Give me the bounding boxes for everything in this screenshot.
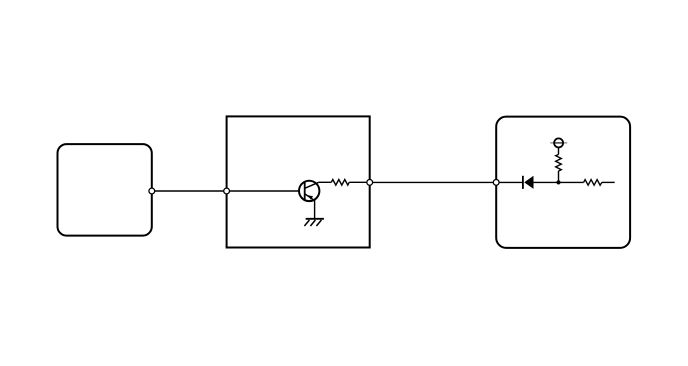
wire (collector to resistor R1): [319, 181, 332, 183]
transistor Q1 (PNP): [299, 181, 319, 201]
wire (middle box to right box): [370, 181, 497, 183]
wire (diode to junction to resistor R3): [534, 181, 584, 183]
wire (junction up to resistor R2): [558, 171, 560, 182]
wire (base lead inside middle box): [227, 190, 305, 192]
resistor R1: [331, 180, 349, 186]
diode D1: [523, 176, 534, 189]
wire (left box to middle box): [152, 190, 227, 192]
block box B2 (middle square): [227, 116, 370, 247]
ground: [304, 219, 324, 226]
node (terminal) at middle box right edge: [367, 180, 373, 186]
node (terminal) at left box right edge: [149, 188, 155, 194]
terminal V1 (circle with bar): [550, 138, 567, 147]
resistor R3: [584, 180, 602, 186]
wire (right box interior: node to diode): [496, 181, 523, 183]
node (terminal) at right box left edge: [493, 180, 499, 186]
wire (resistor R3 stub): [602, 181, 615, 183]
junction dot: [556, 180, 560, 184]
block box B3 (right rounded rectangle): [496, 117, 630, 248]
block box B1 (left rounded rectangle): [58, 144, 152, 236]
wire (resistor R2 up to terminal): [558, 147, 560, 154]
resistor R2 (vertical): [556, 155, 562, 172]
wire (resistor R1 to node): [349, 181, 370, 183]
node (terminal) at middle box left edge: [224, 188, 230, 194]
wire (emitter down lead): [314, 200, 316, 219]
